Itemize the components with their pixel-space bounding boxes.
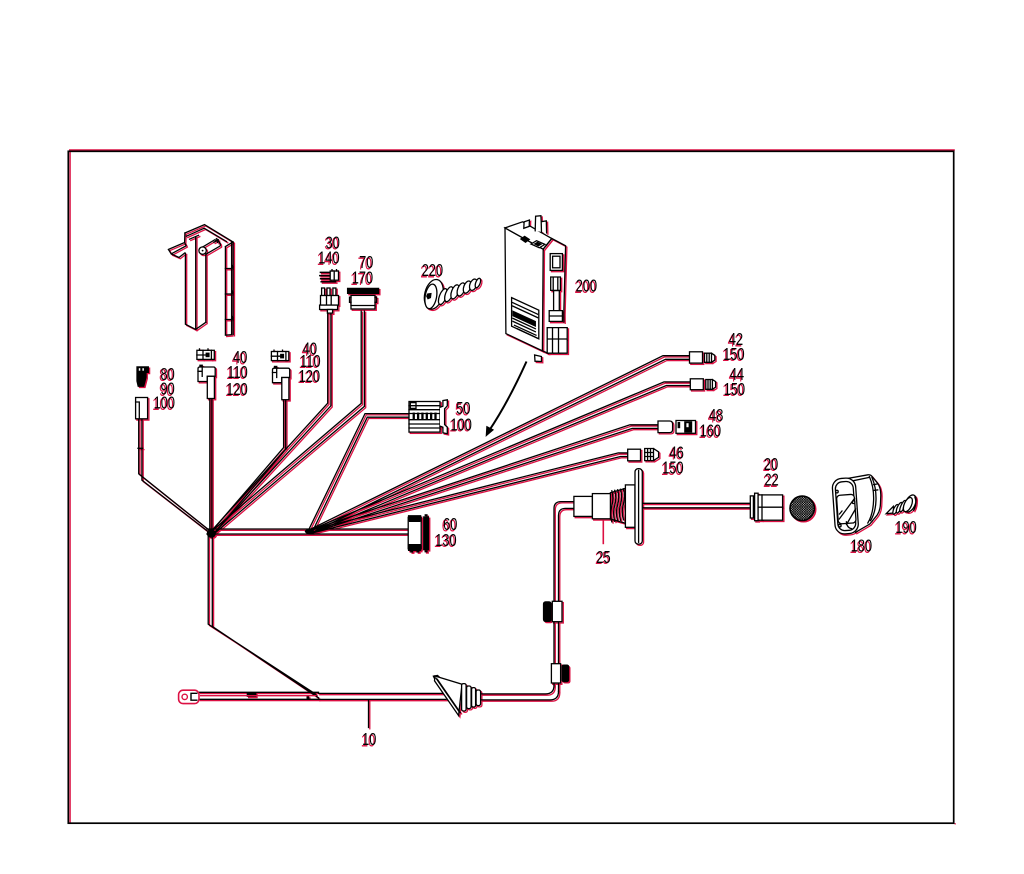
eyelet at rod left end [179,690,199,703]
frame border red shadow [69,150,956,824]
rod mid line red [200,695,316,697]
frame border [68,151,953,823]
arrow near control unit 200 [486,362,526,436]
mesh grommet ball [790,496,816,522]
leader line 25 (red) [602,520,604,545]
